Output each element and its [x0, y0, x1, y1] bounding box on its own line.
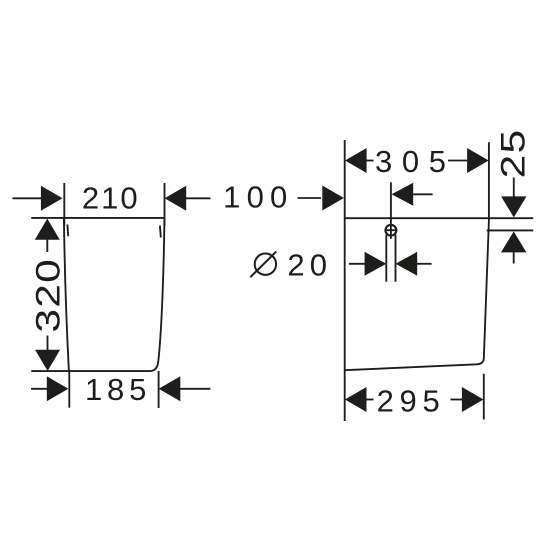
dim 320 upper tail [46, 240, 48, 252]
dim 25 upper tail [513, 178, 515, 197]
dim 295 left arrowhead [345, 387, 367, 412]
dim 305 right tail [448, 160, 467, 162]
dim 305 right arrowhead [467, 148, 489, 173]
hole centerline [390, 182, 392, 239]
diameter symbol slash [250, 252, 276, 278]
dim 185 left arrowhead [47, 376, 69, 401]
dim 185 right arrowhead [159, 376, 181, 401]
side view bottom edge [345, 364, 477, 370]
side view left edge / extension line [344, 140, 346, 421]
dim 25 up arrowhead [501, 231, 526, 252]
dim 305 left tail [366, 160, 374, 162]
front view left slot mark [66, 225, 69, 237]
dim 185 left tail [31, 388, 47, 390]
hole pointer arrowhead [392, 183, 414, 206]
dim 210 left tail [13, 197, 42, 199]
dim 320 lower tail [47, 336, 49, 351]
hole left tangent line [385, 235, 387, 282]
dim 210 right extension line [164, 183, 166, 226]
front view top edge [31, 217, 164, 219]
hole right tangent line [395, 235, 397, 282]
front view bottom edge [31, 370, 151, 372]
dim 185 left extension line [68, 371, 70, 408]
front view right edge [152, 218, 165, 371]
hole circle [386, 225, 397, 236]
dim 25 lower tail [513, 252, 515, 264]
dim 305 right extension line [488, 142, 490, 218]
dim 25 lower extension line [487, 229, 534, 231]
front view left edge [64, 218, 69, 371]
dim 210 right / dim 100 left arrowhead [165, 186, 187, 211]
dim 305 left arrowhead [345, 148, 367, 173]
side view right edge [477, 218, 489, 364]
svg-text:305: 305 [375, 144, 456, 179]
dim 20 right arrowhead [396, 252, 418, 276]
dim 295 right tail [451, 399, 463, 401]
dim 210 left arrowhead [41, 186, 63, 211]
dim 320 top arrowhead [35, 219, 60, 240]
dim 25 down arrowhead [501, 196, 526, 217]
svg-text:210: 210 [82, 181, 140, 216]
dim 185 right extension line [158, 371, 160, 408]
dim 295 right arrowhead [462, 387, 484, 412]
dim 210 left extension line [63, 183, 65, 226]
svg-text:25: 25 [494, 129, 532, 179]
dim 295 right extension line [483, 374, 485, 420]
dim 100 right arrowhead [322, 186, 344, 211]
dim 185 right tail [179, 388, 210, 390]
side view top edge [345, 217, 534, 219]
diameter symbol circle [255, 254, 276, 275]
svg-text:185: 185 [85, 372, 151, 407]
svg-text:320: 320 [29, 258, 67, 333]
dim 20 left tail [349, 263, 365, 265]
dim 295 left tail [366, 399, 374, 401]
dim 20 right tail [417, 263, 432, 265]
hole pointer tail [413, 193, 432, 195]
dim 320 bottom arrowhead [35, 350, 60, 371]
svg-text:100: 100 [223, 180, 293, 215]
dim 20 left arrowhead [365, 252, 387, 276]
front view right slot mark [159, 226, 162, 238]
dim 100 right tail [298, 197, 322, 199]
dim 210/100 shared tail [186, 197, 211, 199]
svg-text:295: 295 [377, 384, 446, 419]
svg-text:20: 20 [287, 247, 332, 282]
hole cross horizontal [385, 229, 397, 231]
